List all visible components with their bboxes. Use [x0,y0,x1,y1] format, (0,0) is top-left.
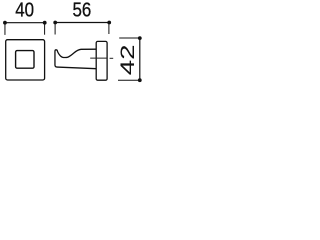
dimension 42 line [139,38,141,80]
dimension 40 line [5,22,45,24]
side view wall plate [96,41,107,80]
svg-text:42: 42 [117,44,139,75]
dimension 42 top dot [138,36,142,40]
front view outer square plate [6,40,45,80]
svg-text:40: 40 [15,0,34,21]
dimension 56 text [72,0,91,21]
dimension 42 text (rotated) [117,44,139,75]
front view inner square hook base [16,51,34,69]
side view center line through plate [90,57,107,59]
side view center line dash [110,57,114,59]
dimension 40 right extension line [44,23,46,35]
dimension 56 right dot [107,21,111,25]
dimension 40 text [15,0,34,21]
dimension 40 left dot [3,21,7,25]
dimension 42 bottom dot [138,78,142,82]
dimension 56 left extension line [54,23,56,35]
dimension 42 top extension line [119,37,140,39]
side view hook profile [55,49,96,68]
dimension 40 right dot [43,21,47,25]
dimension 40 left extension line [4,23,6,35]
dimension 56 right extension line [108,23,110,35]
dimension 56 left dot [53,21,57,25]
dimension 42 bottom extension line [118,79,140,81]
svg-text:56: 56 [72,0,91,21]
dimension 56 line [55,22,109,24]
